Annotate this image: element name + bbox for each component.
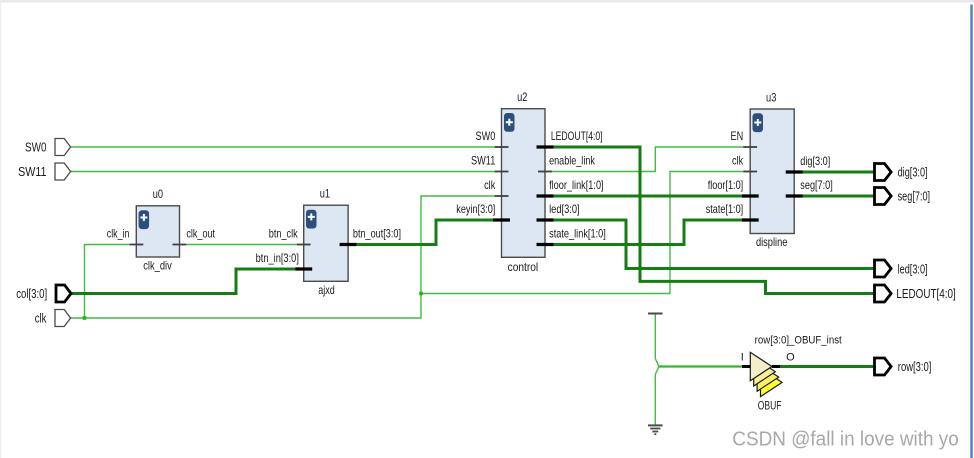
svg-text:btn_in[3:0]: btn_in[3:0] <box>256 251 299 265</box>
pin u2 LEDOUT[4:0] <box>537 145 554 148</box>
pin u1 btn_clk <box>297 244 311 246</box>
svg-text:clk: clk <box>732 154 744 168</box>
svg-text:LEDOUT[4:0]: LEDOUT[4:0] <box>551 129 603 143</box>
svg-text:seg[7:0]: seg[7:0] <box>898 190 931 204</box>
svg-text:state_link[1:0]: state_link[1:0] <box>549 227 606 241</box>
pin u2 floor_link[1:0] <box>537 194 554 197</box>
pin u3 dig[3:0] <box>786 170 803 173</box>
block u3 displine <box>750 90 794 249</box>
svg-text:SW11: SW11 <box>471 154 496 168</box>
svg-text:I: I <box>741 351 744 363</box>
port LEDOUT[4:0] <box>875 285 956 302</box>
wire bus state_link <box>554 220 742 245</box>
svg-text:u3: u3 <box>766 90 777 104</box>
svg-text:btn_clk: btn_clk <box>269 227 299 241</box>
wire clk branch to u0 clk_in <box>85 245 130 319</box>
svg-text:O: O <box>786 351 795 363</box>
pin u1 btn_in[3:0] <box>295 267 312 270</box>
expand icon u1 <box>306 210 317 229</box>
wire bus floor_link <box>554 195 742 198</box>
port SW11 <box>18 163 71 180</box>
svg-text:row[3:0]: row[3:0] <box>898 360 932 374</box>
svg-text:SW11: SW11 <box>18 165 46 179</box>
svg-text:SW0: SW0 <box>476 129 496 143</box>
wire bus row output <box>780 365 874 368</box>
pin u2 enable_link <box>538 171 552 173</box>
svg-text:row[3:0]_OBUF_inst: row[3:0]_OBUF_inst <box>755 335 842 347</box>
svg-text:led[3:0]: led[3:0] <box>549 202 580 216</box>
svg-text:clk_in: clk_in <box>107 227 130 241</box>
pin u3 floor[1:0] <box>742 194 759 197</box>
svg-text:EN: EN <box>731 129 744 143</box>
port col[3:0] <box>16 285 71 302</box>
pin u2 state_link[1:0] <box>537 243 554 246</box>
svg-text:SW0: SW0 <box>25 141 47 155</box>
wire clk branch to u3 clk <box>421 172 743 294</box>
pin u3 seg[7:0] <box>786 194 803 197</box>
svg-text:clk_out: clk_out <box>186 227 215 241</box>
wire net enable_link to EN <box>552 147 743 172</box>
expand icon u0 <box>139 210 150 229</box>
wire OBUF input <box>659 365 742 367</box>
svg-text:LEDOUT[4:0]: LEDOUT[4:0] <box>896 287 955 301</box>
wire net SW0 <box>71 146 495 148</box>
port led[3:0] <box>875 260 928 277</box>
pin u2 SW11 <box>495 171 509 173</box>
ground <box>648 425 663 434</box>
svg-text:btn_out[3:0]: btn_out[3:0] <box>353 227 401 241</box>
svg-text:dig[3:0]: dig[3:0] <box>898 166 928 180</box>
svg-text:u0: u0 <box>153 187 164 201</box>
svg-text:clk_div: clk_div <box>143 259 172 273</box>
expand icon u3 <box>753 113 764 132</box>
wire bus led <box>554 220 874 269</box>
node junction clk branch <box>419 292 423 296</box>
svg-text:floor[1:0]: floor[1:0] <box>708 178 744 192</box>
svg-text:u2: u2 <box>517 90 528 104</box>
svg-text:OBUF: OBUF <box>758 400 782 412</box>
expand icon u2 <box>504 113 515 132</box>
svg-text:seg[7:0]: seg[7:0] <box>800 178 833 192</box>
svg-text:floor_link[1:0]: floor_link[1:0] <box>549 178 604 192</box>
schematic page border (blue) <box>970 5 972 458</box>
block u2 control <box>502 90 546 274</box>
svg-text:CSDN @fall in love with yo: CSDN @fall in love with yo <box>732 427 959 450</box>
pin u0 clk_out <box>173 244 187 246</box>
wire net clk_out to btn_clk <box>187 244 297 246</box>
wire bus btn_out to keyin <box>357 220 493 245</box>
block u0 clk_div <box>136 187 179 273</box>
buffer OBUF row[3:0]_OBUF_inst <box>750 335 841 413</box>
node junction clk at port <box>83 316 87 320</box>
svg-text:dig[3:0]: dig[3:0] <box>800 154 830 168</box>
pin OBUF O <box>772 365 780 368</box>
port clk <box>35 310 71 327</box>
wire bus dig <box>801 171 874 174</box>
svg-text:state[1:0]: state[1:0] <box>706 202 744 216</box>
wire bus LEDOUT <box>554 147 874 294</box>
svg-text:ajxd: ajxd <box>318 283 335 297</box>
net terminator T-bar <box>648 313 663 315</box>
port row[3:0] <box>875 358 932 375</box>
pin u3 state[1:0] <box>742 218 759 221</box>
pin u2 clk <box>495 195 509 197</box>
svg-text:col[3:0]: col[3:0] <box>16 287 47 301</box>
wire gnd vertical net <box>654 314 656 424</box>
pin u2 keyin[3:0] <box>493 218 510 221</box>
pin OBUF I <box>742 365 750 368</box>
pin u0 clk_in <box>129 244 143 246</box>
wire net SW11 <box>71 171 495 173</box>
pin u2 led[3:0] <box>537 218 554 221</box>
port dig[3:0] <box>875 164 928 181</box>
port seg[7:0] <box>875 188 931 205</box>
wire bus seg <box>801 195 874 198</box>
svg-text:clk: clk <box>484 178 496 192</box>
pin u3 clk <box>743 171 757 173</box>
block u1 ajxd <box>304 187 348 297</box>
svg-text:keyin[3:0]: keyin[3:0] <box>456 202 495 216</box>
svg-text:control: control <box>508 260 539 274</box>
wire net clk main run <box>71 196 495 318</box>
svg-text:clk: clk <box>35 312 47 326</box>
svg-text:displine: displine <box>756 235 788 249</box>
svg-text:enable_link: enable_link <box>549 154 596 168</box>
pin u2 SW0 <box>495 146 509 148</box>
pin u1 btn_out[3:0] <box>340 243 357 246</box>
svg-text:u1: u1 <box>320 187 331 201</box>
svg-text:led[3:0]: led[3:0] <box>898 263 928 277</box>
port SW0 <box>25 139 71 156</box>
pin u3 EN <box>743 146 757 148</box>
wire bus col[3:0] <box>71 269 296 294</box>
